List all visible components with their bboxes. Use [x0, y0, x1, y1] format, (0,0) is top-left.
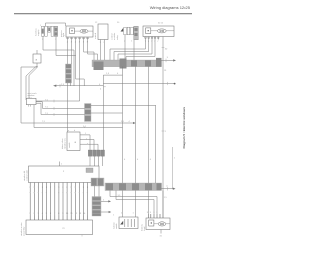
- tick and label 5 on arrow wire: [165, 59, 167, 63]
- wire: node y50 into box a: [36, 50, 38, 54]
- battery / ignition feed unit U3: [143, 26, 174, 37]
- connector bar V1 (vertical): [85, 104, 92, 122]
- interior light / fuse unit U1: [66, 26, 93, 37]
- connector strip V2: [66, 64, 72, 83]
- svg-text:s: s: [29, 192, 30, 194]
- connector bar C4 (wide bottom): [105, 183, 162, 191]
- window motor unit M1: [26, 220, 93, 235]
- labels: wire codes top area: [42, 39, 168, 51]
- isolator switch S3: [119, 217, 138, 229]
- wire: supply loop F1 to U1: [46, 23, 66, 26]
- label: M1 name (rotated): [20, 222, 26, 236]
- svg-text:control unit: control unit: [25, 170, 28, 181]
- connector K1 (4 cells): [88, 150, 104, 156]
- wire: F1 pin to node y55: [55, 37, 57, 56]
- svg-text:switch: switch: [115, 222, 118, 229]
- wire: K3 continuation arrow 2: [101, 211, 109, 213]
- wire: continuation arrow from C1 right end: [162, 59, 174, 61]
- connector patch K2 on U4 corner: [91, 178, 104, 186]
- svg-text:g: g: [34, 192, 35, 194]
- junction box a: [33, 54, 41, 63]
- label: U5 name (rotated): [140, 223, 146, 231]
- wire: vertical x74 to ground run: [73, 50, 75, 86]
- svg-text:s: s: [54, 192, 55, 194]
- wire: S1 contact 2 to bar C1: [133, 40, 135, 60]
- svg-text:g: g: [83, 192, 84, 194]
- svg-text:s: s: [46, 192, 47, 194]
- wire: S2 output 1 to K1: [80, 135, 90, 150]
- wire: S2 output 2 to K1: [80, 140, 94, 151]
- wire: x163 into U5: [162, 191, 164, 219]
- wire: S1 contact to bar C1: [124, 35, 126, 60]
- svg-text:s: s: [79, 192, 80, 194]
- svg-text:g: g: [42, 192, 43, 194]
- wire: R1 pin to bus B2: [33, 105, 35, 128]
- svg-text:control: control: [111, 33, 114, 40]
- wire: C4 to U5 pin1: [147, 191, 149, 215]
- connector bar C1: [92, 58, 162, 70]
- label: S3 name (rotated): [113, 222, 119, 229]
- wire: U1 pin4 to relay output node: [79, 40, 81, 101]
- wire: U1 pin6 elbow to bar C1: [88, 40, 98, 60]
- wire: V1 top run y105 to x155.7: [91, 104, 156, 106]
- labels: S2 top pins a b: [68, 130, 76, 132]
- svg-text:s: s: [62, 192, 63, 194]
- ignition switch S1 contact cluster: [121, 26, 139, 40]
- svg-text:g: g: [58, 192, 59, 194]
- svg-text:supply: supply: [38, 29, 40, 36]
- wire: long vertical x135.5 C1 to C4: [135, 67, 137, 184]
- svg-text:g: g: [50, 192, 51, 194]
- labels: M1 pin numbers: [29, 213, 86, 215]
- control module U2: [98, 24, 108, 40]
- wire: K1 cell3 to ECU: [98, 156, 100, 166]
- svg-text:switch: switch: [94, 32, 97, 39]
- U1 pin sockets: [67, 37, 89, 39]
- wire: bus B2 y127.5: [34, 127, 123, 129]
- wire: U1 pin3 down: [75, 40, 77, 79]
- wire: F1 pin to node y50: [42, 36, 44, 50]
- wire: jog y75 x122.5 to x103.4: [103, 74, 122, 76]
- window switch S2: [67, 132, 80, 151]
- M1 top pin ticks: [30, 216, 87, 221]
- label: F1 fusebox supply (rotated): [35, 27, 40, 36]
- fuse/connector cluster F1: [41, 26, 57, 36]
- label: relay R1 name: [28, 92, 38, 99]
- wire: junction run y83.5 with end dot: [103, 83, 174, 85]
- wire: jog x75.6 to ground run: [76, 79, 85, 86]
- labels: R1 output wire codes 7,5: [45, 99, 49, 115]
- wire: box a diagonal 2 to relay R1 top: [29, 67, 38, 101]
- wire: long vertical x148.3 C1 to C4: [147, 67, 149, 184]
- wire: horizontal run y50: [43, 49, 74, 51]
- wire: long vertical x122.5 C1 to C4: [122, 67, 124, 184]
- wire: R1 output 1: [36, 100, 80, 102]
- label: U2 side labels (rotated): [111, 32, 119, 40]
- arrowhead bus B1: [133, 122, 136, 124]
- wire: K2 to K3 left: [94, 186, 96, 197]
- pins below U3 (1-5): [146, 37, 159, 40]
- wire: R1 output 2 jog to bar V1: [36, 102, 85, 109]
- wire: C4 route to U5 pin3: [116, 191, 154, 215]
- labels: wire codes 1,5 / 4 at jog: [100, 73, 119, 90]
- wire: C4 to isolator S3 pin2: [135, 191, 137, 218]
- ECU box U4 window lift control: [29, 166, 100, 183]
- label: U1 side labels (rotated): [60, 30, 97, 39]
- ground pin below U5: [160, 230, 162, 234]
- labels: U1 pin numbers: [67, 42, 89, 44]
- wire: right vertical x172.5 to arrow run: [172, 147, 174, 189]
- wire: U3 pin4 bracket to bar C1: [126, 40, 155, 61]
- wire: ground run arrow y85.7: [54, 85, 104, 87]
- wire: bus B1 y123: [21, 122, 133, 124]
- tick on wire 30: [162, 47, 165, 49]
- wire: V2 stub to ground run: [70, 83, 72, 86]
- wire: U3 pin3 bracket to bar C1: [118, 40, 152, 61]
- wire: U1 pin1 to connector V2: [67, 40, 69, 64]
- labels: bus wire codes: [42, 121, 131, 129]
- svg-text:window sw: window sw: [64, 138, 66, 149]
- wire: K3 continuation arrow 1: [101, 200, 109, 202]
- R1 bottom pins: [27, 105, 29, 107]
- svg-text:light: light: [62, 33, 65, 37]
- wire: K1 cell1 to ECU: [89, 156, 91, 166]
- labels: U3 pin numbers: [145, 41, 160, 43]
- tick and label 4 on C4 arrow: [167, 187, 169, 191]
- svg-text:Diagram 5 : Electric windows: Diagram 5 : Electric windows: [182, 107, 186, 149]
- wire: U1 pin5 elbow to bar C1: [84, 40, 94, 60]
- svg-text:switch: switch: [68, 141, 71, 148]
- wire: C4 route to U5 pin4: [110, 191, 157, 215]
- tick and label 2,5 on ground run: [59, 84, 61, 87]
- pins below U1 (1-6): [68, 37, 88, 40]
- svg-text:30 15: 30 15: [158, 23, 164, 25]
- wire: V2 to switch S2: [67, 83, 69, 132]
- relay R1: [26, 98, 36, 104]
- tick on junction run: [167, 82, 169, 85]
- wires: U4 pin comb to motor unit M1: [30, 183, 87, 216]
- wire: U1 pin2 to connector V2: [71, 40, 73, 64]
- wire: horizontal run y55: [56, 55, 76, 57]
- svg-text:m: m: [63, 227, 65, 230]
- tick on x103.4: [103, 86, 105, 88]
- wire: U2 pin1 to bar C1: [100, 40, 102, 61]
- svg-text:s: s: [70, 192, 71, 194]
- wire: U3 pin1 bracket to bar C1: [110, 40, 146, 61]
- wire: K1 cell2 to ECU: [93, 156, 95, 166]
- labels: bottom pin wire codes: [121, 197, 168, 215]
- svg-text:Wiring diagrams 12•25: Wiring diagrams 12•25: [150, 5, 191, 10]
- wire: box a diagonal to relay R1 top: [26, 66, 37, 100]
- svg-text:g: g: [75, 192, 76, 194]
- label: U4 name (rotated): [23, 170, 29, 181]
- wire: stub into ECU top x59.5: [59, 162, 61, 167]
- U4 internal connector patch: [86, 168, 93, 173]
- wire: continuation arrow from C4 right end: [162, 188, 174, 190]
- svg-text:s: s: [87, 192, 88, 194]
- wire: U3 pin2 bracket to bar C1: [114, 40, 149, 61]
- labels: wire codes mid verticals: [124, 70, 176, 161]
- labels: U4 pin wire codes row 2: [29, 192, 87, 194]
- wire: R1 output 3 jog to bar V1: [36, 103, 85, 114]
- battery feed unit U5: [146, 218, 170, 230]
- svg-text:s: s: [38, 192, 39, 194]
- header rule: [14, 12, 192, 15]
- connector K3 (tall): [92, 197, 101, 217]
- U5 top pin ticks: [148, 214, 160, 218]
- wire: S2 output 3 to K1: [80, 144, 98, 150]
- svg-text:g: g: [66, 192, 67, 194]
- wire: vertical x103.4 to connector K1: [102, 75, 104, 150]
- tick and label on x163 wire: [162, 130, 165, 132]
- wire: U2 pin2 to bar C1: [103, 40, 105, 61]
- labels: U4 pin wire codes row 1: [29, 187, 88, 189]
- wire: C4 to isolator S3 pin1: [122, 191, 124, 218]
- svg-text:assembly: assembly: [23, 226, 25, 236]
- labels: S2 output pins: [85, 133, 89, 145]
- wire: K1 cell4 to ECU: [102, 156, 104, 166]
- wire: V1 run y113 to x122.5: [91, 112, 123, 114]
- wire: battery feed 30 (x163 full drop): [162, 37, 164, 219]
- wire: K2 to K3 right: [98, 186, 100, 197]
- wire: vertical x155.7 to bar C4: [155, 105, 157, 183]
- label: S2 name (rotated): [61, 138, 67, 149]
- M1 bottom tick: [81, 235, 83, 237]
- wire: box a to left rail x21 down to bus B1: [21, 63, 37, 123]
- U3 pin sockets: [145, 37, 159, 39]
